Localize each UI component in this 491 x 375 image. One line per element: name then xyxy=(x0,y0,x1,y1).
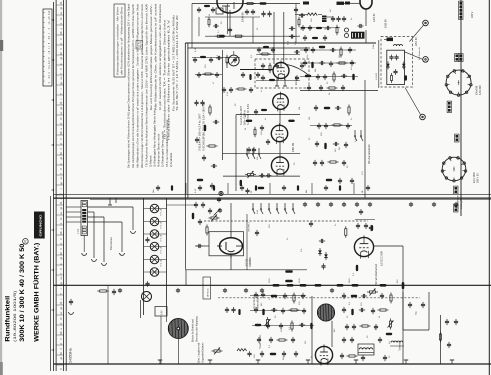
wire v1 to box xyxy=(191,4,193,49)
capacitor C34 xyxy=(304,60,306,63)
wire amx1 xyxy=(256,54,300,56)
FM box left wall a xyxy=(184,43,186,198)
supply bus B+ xyxy=(54,284,491,286)
capacitor C181 xyxy=(365,223,367,225)
svg-text:sw: sw xyxy=(61,76,63,79)
tube V3 xyxy=(273,94,289,110)
svg-text:Brücke für Betrieb und: Brücke für Betrieb und xyxy=(192,318,195,342)
capacitor C3 xyxy=(289,28,292,30)
capacitor C207 xyxy=(325,27,327,29)
resistor R114 xyxy=(255,324,262,326)
svg-text:1M: 1M xyxy=(339,147,341,150)
svg-text:EC 92: EC 92 xyxy=(245,258,249,266)
antenna hook 4 xyxy=(131,231,136,233)
capacitor C217 xyxy=(257,72,259,74)
capacitor C206 xyxy=(309,25,311,27)
resistor R16 xyxy=(209,105,211,108)
osc coil L2 xyxy=(358,344,374,355)
capacitor C133 xyxy=(343,307,345,310)
potentiometer P2 xyxy=(209,217,212,219)
capacitor C81 xyxy=(147,281,149,283)
terminal table rows xyxy=(43,12,45,14)
svg-text:Wunschklang: Wunschklang xyxy=(258,295,260,309)
svg-text:300K: 300K xyxy=(250,258,252,264)
capacitor C211 xyxy=(210,57,212,59)
wire k1 xyxy=(227,4,229,35)
resistor R134 xyxy=(360,325,363,327)
wire switch drop xyxy=(246,214,248,270)
capacitor C166 xyxy=(295,7,297,9)
ferrite drop 1 xyxy=(311,296,313,364)
capacitor C124 xyxy=(261,351,263,354)
mains connector J1 xyxy=(460,2,463,5)
hook bottom xyxy=(69,312,74,314)
tube socket X2 xyxy=(442,157,466,181)
wire tr1 xyxy=(295,14,307,16)
antenna wire 3 xyxy=(88,221,123,223)
capacitor C14 xyxy=(259,175,261,177)
svg-text:TA/TB-St.: TA/TB-St. xyxy=(206,288,209,298)
capacitor C209 xyxy=(324,35,326,37)
resistor R112 xyxy=(262,309,264,316)
resistor R141 xyxy=(440,332,442,335)
resistor R230 xyxy=(238,309,240,315)
capacitor C41 xyxy=(308,85,310,88)
resistor R213 xyxy=(249,74,251,80)
capacitor C38 xyxy=(317,74,319,77)
tp terminal 3 xyxy=(423,57,429,63)
capacitor C90b xyxy=(218,197,220,199)
wire tr5 xyxy=(300,27,340,29)
capacitor C32 xyxy=(330,49,333,51)
svg-text:7V 0,1A: 7V 0,1A xyxy=(160,259,163,267)
wire grid row xyxy=(223,153,301,155)
capacitor C43 xyxy=(342,85,344,88)
resistor R160 xyxy=(204,5,210,7)
GRUNDIG label xyxy=(34,212,45,239)
detector diode D2 xyxy=(403,61,405,69)
wire V6 cathode xyxy=(230,256,232,270)
NBR box xyxy=(136,41,143,49)
capacitor C51 xyxy=(335,107,338,109)
resistor R37 xyxy=(327,87,330,89)
capacitor C172 xyxy=(294,51,296,53)
capacitor C143 xyxy=(362,355,364,358)
connector J3 xyxy=(448,102,451,105)
svg-text:240V: 240V xyxy=(299,278,301,283)
ferrite antenna xyxy=(317,304,334,321)
resistor R13 xyxy=(288,120,295,122)
capacitor C1 xyxy=(263,11,265,14)
wire strip drop xyxy=(83,236,85,253)
dial lamp LP2 xyxy=(150,217,159,226)
resistor R30 xyxy=(319,46,326,48)
tube V9 envelope xyxy=(360,0,372,9)
capacitor C52 xyxy=(318,123,320,126)
resistor R162 xyxy=(208,17,210,20)
capacitor C56 xyxy=(333,143,336,145)
resistor R62 xyxy=(356,265,358,272)
capacitor C13 xyxy=(253,147,255,150)
resistor R161 xyxy=(245,3,248,5)
capacitor C151 xyxy=(70,299,72,302)
coil L3 xyxy=(391,341,403,343)
resistor R36 xyxy=(352,74,354,81)
svg-text:H 1903: H 1903 xyxy=(376,72,378,80)
capacitor C23 xyxy=(211,183,213,186)
capacitor C208 xyxy=(304,35,306,37)
wire cl2 xyxy=(310,125,352,127)
svg-text:gemessen bei 220V~ auf NBR 27K: gemessen bei 220V~ auf NBR 27K0 (ohne Si… xyxy=(145,4,149,110)
capacitor C95 xyxy=(256,230,258,233)
capacitor C50 xyxy=(315,105,317,108)
resistor R171 xyxy=(260,53,263,55)
tp terminal 1 xyxy=(423,20,429,26)
capacitor C154 xyxy=(448,342,450,345)
svg-text:br: br xyxy=(60,117,63,119)
svg-text:Alle Widerstände in Ohm alle K: Alle Widerstände in Ohm alle Kondensator… xyxy=(136,4,140,168)
svg-text:WERKE GMBH FÜRTH (BAY.): WERKE GMBH FÜRTH (BAY.) xyxy=(32,243,41,342)
trafo box 14V xyxy=(155,307,167,317)
wire tx3 xyxy=(295,4,297,44)
svg-text:7V 0,1A: 7V 0,1A xyxy=(160,246,163,254)
capacitor C119 xyxy=(280,323,282,326)
capacitor C35 xyxy=(319,62,322,64)
bus tick labels xyxy=(56,4,64,6)
waveband switch contacts xyxy=(252,203,254,209)
capacitor C123 xyxy=(292,337,294,340)
svg-text:1M: 1M xyxy=(339,55,341,58)
potentiometer P3 xyxy=(267,317,269,320)
svg-text:Drän 1 angeben mit: Drän 1 angeben mit xyxy=(198,342,201,363)
svg-text:ECC 808: ECC 808 xyxy=(472,172,476,183)
antenna hook 3 xyxy=(120,253,125,255)
wire stage feed 2 xyxy=(235,115,237,191)
capacitor C134 xyxy=(359,309,362,311)
capacitor C2 xyxy=(269,11,271,14)
top edge wire xyxy=(192,3,300,5)
resistor R32 xyxy=(311,62,313,69)
scan edge shading xyxy=(0,0,2,375)
svg-text:2n: 2n xyxy=(351,18,353,20)
connector J5 xyxy=(455,187,458,190)
capacitor C214 xyxy=(198,72,200,74)
capacitor C185 xyxy=(455,202,457,204)
svg-text:br: br xyxy=(60,17,63,19)
wire V7 anode xyxy=(374,245,403,247)
wire cl1a xyxy=(300,49,356,51)
supply pill R191 xyxy=(352,284,359,287)
potentiometer P5 xyxy=(390,319,392,322)
supply pill R192 xyxy=(380,284,387,287)
bus line L1 xyxy=(53,2,55,371)
wire left drop xyxy=(107,285,109,364)
svg-text:bei und Grundig Röhrenvoltmete: bei und Grundig Röhrenvoltmeter gegen Ma… xyxy=(149,4,153,110)
resistor R210 xyxy=(200,56,206,58)
resistor R33 xyxy=(337,62,340,64)
capacitor C173 xyxy=(262,63,264,65)
resistor R212 xyxy=(203,73,206,75)
resistor R51 xyxy=(348,105,350,108)
capacitor C221 xyxy=(255,109,257,111)
wire cl3b xyxy=(250,310,306,312)
resistor R215 xyxy=(261,109,267,111)
capacitor C114 xyxy=(255,307,257,310)
resistor R180 xyxy=(371,225,373,231)
dial lamp LP1 xyxy=(150,204,159,213)
svg-text:Vocal-Stereo: Vocal-Stereo xyxy=(253,295,256,309)
FM box top xyxy=(188,47,310,49)
potentiometer arrow P6 xyxy=(214,209,221,216)
capacitor C203 xyxy=(343,16,345,18)
wire audio row xyxy=(186,269,307,271)
svg-text:EBD 83: EBD 83 xyxy=(415,37,418,46)
svg-text:M: M xyxy=(61,353,63,355)
AM dashed bus xyxy=(218,297,420,299)
tube V8 output xyxy=(315,346,332,363)
detector res R70 xyxy=(391,73,393,76)
wire fr drop xyxy=(440,315,442,364)
detector diode D1 xyxy=(387,61,389,69)
chassis divider lower xyxy=(54,197,491,199)
capacitor C201 xyxy=(332,16,334,18)
capacitor C230 xyxy=(226,307,228,309)
svg-text:EAM 86: EAM 86 xyxy=(475,85,479,95)
resistor R59 xyxy=(285,280,293,283)
resistor R214 xyxy=(236,88,239,90)
capacitor C30 xyxy=(305,47,307,50)
wire fm2 xyxy=(195,74,222,76)
chassis divider upper xyxy=(54,193,491,195)
rail junction dots xyxy=(52,19,54,21)
AM bus capacitors xyxy=(304,202,306,204)
svg-text:sw: sw xyxy=(61,276,63,279)
bus line L2 xyxy=(55,0,57,371)
capacitor C39 xyxy=(324,74,326,77)
diode D4 xyxy=(325,252,327,260)
capacitor C231 xyxy=(233,307,235,309)
ratio inner box xyxy=(387,50,405,84)
svg-text:85V: 85V xyxy=(397,279,399,283)
capacitor C163 xyxy=(252,9,254,11)
capacitor C136 xyxy=(346,324,348,327)
speaker frame xyxy=(140,300,142,318)
svg-text:Die Spannungen sind mit Röhren: Die Spannungen sind mit Röhrenvoltmeter … xyxy=(127,4,131,168)
capacitor C36 xyxy=(330,61,332,64)
antenna hook 2 xyxy=(102,263,107,265)
capacitor C176 xyxy=(296,75,298,77)
wire cathode row xyxy=(223,175,300,177)
detector coil L1 xyxy=(394,45,403,47)
resistor R131 xyxy=(390,293,392,296)
speaker LS1 xyxy=(168,319,188,339)
antenna stub a xyxy=(109,198,111,205)
right edge line xyxy=(488,0,490,375)
dial lamp LP4 xyxy=(150,242,159,251)
capacitor C223 xyxy=(267,139,269,141)
svg-text:1 r: 1 r xyxy=(48,46,51,49)
capacitor C141 xyxy=(379,337,381,340)
capacitor C21 xyxy=(203,155,205,158)
svg-text:6,3V 80V: 6,3V 80V xyxy=(479,85,482,95)
resistor R211 xyxy=(226,55,228,58)
capacitor C125 xyxy=(283,351,285,354)
capacitor C120 xyxy=(299,324,302,326)
svg-text:UK: UK xyxy=(61,331,63,335)
supply pills xyxy=(273,284,280,287)
capacitor C96 xyxy=(319,240,322,242)
tube V1 EAM86 envelope xyxy=(217,0,243,13)
switch S2 xyxy=(360,130,362,136)
capacitor C137 xyxy=(353,324,355,327)
potentiometer P1 xyxy=(245,174,248,176)
resistor R52 xyxy=(332,124,335,126)
capacitor C135 xyxy=(372,308,374,311)
wire audio drop xyxy=(185,270,187,286)
connector J4 xyxy=(456,135,459,138)
wire wall lower xyxy=(185,198,187,270)
bus line L3 xyxy=(63,0,65,371)
resistor R31 xyxy=(340,47,342,50)
antenna wire 1 xyxy=(88,211,95,213)
tube V4 EBF89 xyxy=(271,125,287,141)
wire V1 drop b xyxy=(283,12,285,63)
resistor R18 xyxy=(207,145,210,147)
switch S4 xyxy=(252,148,254,154)
wire det row xyxy=(300,90,378,92)
capacitor C215 xyxy=(216,72,218,74)
rail stub 3 xyxy=(66,216,81,218)
switch S1 xyxy=(354,130,356,136)
resistor R216 xyxy=(254,127,256,130)
wire cl3c xyxy=(252,325,314,327)
resistor R164 xyxy=(298,17,300,20)
terminal T0 xyxy=(219,191,223,195)
svg-text:in pF soweit nicht anders ange: in pF soweit nicht anders angegeben von … xyxy=(158,3,162,110)
capacitor C112 xyxy=(284,293,286,296)
note box xyxy=(114,4,125,77)
capacitor C130 xyxy=(343,293,345,296)
zigzag coil L6 xyxy=(237,349,247,351)
capacitor C139 xyxy=(343,337,345,340)
antenna hook 1 xyxy=(92,259,97,261)
svg-text:Wechselspannungen mit Röhrenvo: Wechselspannungen mit Röhrenvoltmeter be… xyxy=(140,3,144,168)
svg-text:alle Kondensatoren in pF · Wid: alle Kondensatoren in pF · Widerstände O… xyxy=(121,7,124,75)
svg-text:Gegentakt-Endstufe: Gegentakt-Endstufe xyxy=(201,342,204,363)
detector cap C70 xyxy=(395,69,397,71)
svg-text:5) Wiedergabe Stereo rechts: 5) Wiedergabe Stereo rechts xyxy=(161,131,165,167)
FM box left wall b xyxy=(187,43,189,198)
ratio detector box xyxy=(381,37,413,88)
wire tr4 xyxy=(344,2,360,4)
capacitor C59 xyxy=(321,160,323,163)
tube V6 EC92 box xyxy=(209,232,244,256)
svg-text:14V: 14V xyxy=(160,310,164,315)
resistor R15 xyxy=(258,187,265,189)
capacitor C113 xyxy=(302,293,304,296)
dial lamp LP6 xyxy=(150,268,159,277)
capacitor C22 xyxy=(211,165,214,167)
IF core A xyxy=(303,2,309,5)
capacitor C160 xyxy=(198,7,200,9)
wire V1 drop a xyxy=(273,12,275,64)
potentiometer P4 xyxy=(367,291,370,293)
resistor R115 xyxy=(291,321,293,324)
tp terminal 2 xyxy=(420,114,426,120)
resistor R133 xyxy=(378,309,381,311)
resistor R117 xyxy=(277,339,280,341)
capacitor C31 xyxy=(312,47,314,50)
capacitor C97 xyxy=(323,263,325,266)
capacitor C115 xyxy=(271,309,274,311)
svg-text:14353Ha: 14353Ha xyxy=(69,348,73,363)
capacitor C42 xyxy=(320,85,322,88)
capacitor C62 xyxy=(351,178,353,181)
tuning meter M1 xyxy=(228,55,239,66)
diode D3 xyxy=(319,248,321,256)
wire tube col xyxy=(279,109,281,125)
svg-text:GRUNDIG: GRUNDIG xyxy=(39,214,43,237)
resistor R19 xyxy=(197,179,204,181)
wire anode row xyxy=(236,114,300,116)
dial lamp LP5 xyxy=(150,255,159,264)
capacitor C37 xyxy=(351,60,353,63)
resistor R136 xyxy=(347,355,350,357)
capacitor C90c xyxy=(219,208,221,210)
svg-text:M: M xyxy=(61,253,63,255)
svg-text:F 10: F 10 xyxy=(77,229,80,234)
wire tx4 xyxy=(205,16,260,18)
svg-text:M: M xyxy=(61,53,63,55)
capacitor C18 xyxy=(202,100,204,103)
capacitor C131 xyxy=(361,295,364,297)
capacitor C92 xyxy=(202,202,204,205)
svg-text:255V: 255V xyxy=(269,278,271,283)
capacitor C138 xyxy=(375,324,377,327)
rail stub 1 xyxy=(66,206,81,208)
wire nf selector xyxy=(364,80,366,198)
resistor R14 xyxy=(240,180,242,187)
rail stub 2 xyxy=(66,211,81,213)
resistor R111 xyxy=(293,293,295,296)
capacitor C213 xyxy=(234,57,236,59)
capacitor C122 xyxy=(270,337,272,340)
capacitor C53 xyxy=(325,123,327,126)
supply cap C191 xyxy=(331,288,333,290)
capacitor C177 xyxy=(301,63,303,65)
resistor R110 xyxy=(271,295,278,297)
switch S3 xyxy=(246,148,248,154)
capacitor C218 xyxy=(223,87,225,89)
resistor R34 xyxy=(305,75,312,77)
capacitor C116 xyxy=(282,308,284,311)
heater chain wire xyxy=(460,0,462,216)
bus line L4 xyxy=(65,0,67,371)
resistor R55 xyxy=(326,179,333,181)
capacitor C16 xyxy=(247,188,249,190)
svg-text:(19-80206 1001/5): (19-80206 1001/5) xyxy=(13,291,17,342)
tube V7 ECC808 xyxy=(354,237,373,256)
capacitor C80 xyxy=(147,237,149,239)
terminal table box xyxy=(43,9,52,86)
resistor R135 xyxy=(386,333,393,335)
capacitor C205 xyxy=(302,25,304,27)
detector wire left xyxy=(378,40,380,88)
capacitor C91 xyxy=(195,202,197,205)
capacitor C60 xyxy=(343,160,345,163)
capacitor C17 xyxy=(196,100,198,103)
svg-text:UK: UK xyxy=(61,31,63,35)
